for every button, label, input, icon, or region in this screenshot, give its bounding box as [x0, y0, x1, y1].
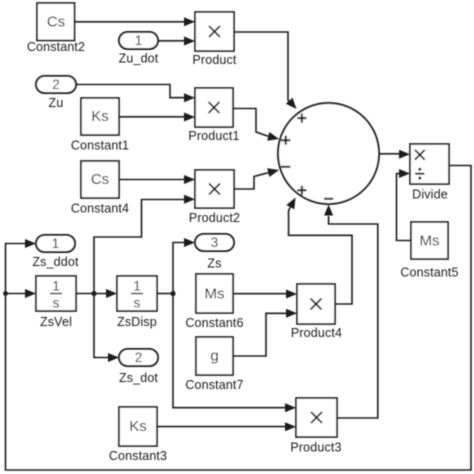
- svg-text:g: g: [210, 348, 218, 365]
- wire ZsVel output to Zs_dot: [94, 294, 119, 363]
- product Product3: [290, 398, 341, 455]
- svg-text:Ms: Ms: [205, 286, 225, 303]
- sum sign top plus: [297, 114, 306, 123]
- wire Zs node to Product3 port1: [173, 294, 296, 413]
- product Product: [192, 12, 237, 67]
- junction ZsVel output node: [91, 291, 96, 296]
- inport 2 Zu: [36, 76, 76, 110]
- wire Divide feedback loop to Zs_ddot: [6, 166, 472, 471]
- wire Product to Sum top plus: [234, 32, 297, 109]
- svg-text:Zu: Zu: [49, 96, 64, 110]
- svg-text:Constant4: Constant4: [71, 202, 129, 216]
- wire ZsVel to ZsDisp: [76, 289, 117, 298]
- svg-text:Zu_dot: Zu_dot: [119, 52, 159, 66]
- svg-text:2: 2: [52, 77, 60, 92]
- outport 2 Zs_dot: [119, 349, 158, 385]
- svg-text:1: 1: [52, 279, 60, 294]
- junction feedback ZsVel: [3, 291, 8, 296]
- svg-text:Constant7: Constant7: [185, 378, 243, 392]
- product Product1: [188, 88, 239, 143]
- wire Constant5 to Divide port2: [397, 169, 412, 241]
- svg-text:2: 2: [135, 350, 143, 365]
- wire Constant7 to Product4 port2: [233, 309, 297, 356]
- svg-text:Zs_ddot: Zs_ddot: [32, 255, 79, 269]
- wire ZsVel output to Product2 port2: [94, 195, 195, 294]
- svg-text:3: 3: [211, 235, 219, 250]
- inport 1 Zu_dot: [119, 32, 159, 66]
- constant Constant4 value Cs: [71, 161, 129, 216]
- svg-text:1: 1: [135, 33, 143, 48]
- divide block Divide: [410, 144, 449, 202]
- svg-text:Ks: Ks: [91, 108, 109, 125]
- svg-text:Product1: Product1: [188, 129, 239, 143]
- svg-text:s: s: [53, 296, 60, 311]
- svg-text:Product2: Product2: [189, 211, 240, 225]
- integrator ZsDisp 1/s: [117, 276, 157, 329]
- integrator ZsVel 1/s: [36, 276, 76, 329]
- wire ZsDisp to Zs node: [157, 293, 173, 295]
- wire Product4 to Sum bottom plus: [286, 198, 352, 305]
- constant Constant1 value Ks: [71, 98, 129, 153]
- svg-text:Constant2: Constant2: [27, 40, 85, 54]
- wire branch feedback to ZsVel input: [6, 289, 37, 298]
- svg-text:Constant5: Constant5: [400, 266, 458, 280]
- svg-text:Constant6: Constant6: [185, 316, 243, 330]
- sum sign left plus: [281, 136, 290, 145]
- sum sign bottom plus: [297, 186, 306, 195]
- svg-text:Product4: Product4: [291, 326, 342, 340]
- svg-text:Product: Product: [192, 53, 237, 67]
- outport 1 Zs_ddot: [32, 235, 79, 269]
- svg-text:Product3: Product3: [290, 441, 341, 455]
- svg-text:1: 1: [133, 279, 141, 294]
- sum sign left minus: [281, 166, 290, 168]
- wire Constant2 to Product port1: [75, 17, 196, 26]
- svg-text:Ms: Ms: [420, 233, 440, 250]
- wire Product2 to Sum left minus: [234, 168, 279, 189]
- constant Constant7 value g: [185, 337, 243, 392]
- constant Constant3 value Ks: [109, 407, 167, 463]
- wire Constant1 to Product1 port2: [119, 113, 195, 122]
- sum sign bottom minus: [324, 198, 333, 200]
- svg-text:Ks: Ks: [129, 418, 147, 435]
- wire Constant4 to Product2 port1: [119, 175, 195, 184]
- svg-text:Zs_dot: Zs_dot: [119, 371, 158, 385]
- svg-text:Cs: Cs: [47, 14, 65, 31]
- wire Product3 to Sum bottom minus: [324, 205, 378, 419]
- product Product4: [291, 284, 342, 340]
- svg-text:Zs: Zs: [207, 257, 221, 271]
- wire Zu_dot to Product port2: [158, 37, 195, 46]
- wire Constant3 to Product3 port2: [157, 422, 296, 431]
- wire Sum to Divide port1: [379, 150, 410, 159]
- wire Product1 to Sum left plus: [233, 109, 279, 141]
- outport 3 Zs: [195, 234, 234, 271]
- constant Constant6 value Ms: [185, 274, 243, 330]
- svg-text:Cs: Cs: [91, 171, 109, 188]
- wire Constant6 to Product4 port1: [233, 290, 297, 299]
- constant Constant2 value Cs: [27, 3, 85, 54]
- wire Zu to Product1 port1: [76, 85, 195, 103]
- svg-text:Divide: Divide: [412, 188, 448, 202]
- product Product2: [189, 170, 240, 225]
- svg-text:s: s: [134, 296, 141, 311]
- svg-text:ZsDisp: ZsDisp: [117, 315, 157, 329]
- sum block circle: [278, 103, 379, 204]
- svg-text:1: 1: [52, 236, 60, 251]
- svg-text:Constant3: Constant3: [109, 449, 167, 463]
- constant Constant5 value Ms: [400, 222, 458, 280]
- junction ZsDisp output node: [170, 291, 175, 296]
- wire Zs node to Zs outport: [173, 238, 195, 294]
- svg-text:ZsVel: ZsVel: [40, 315, 72, 329]
- svg-text:Constant1: Constant1: [71, 139, 129, 153]
